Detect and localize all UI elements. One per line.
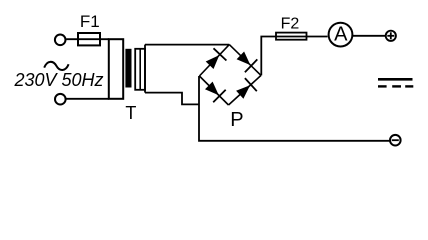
svg-text:F1: F1 [80, 12, 100, 31]
svg-text:230V 50Hz: 230V 50Hz [14, 70, 104, 90]
svg-text:P: P [230, 109, 243, 131]
svg-text:F2: F2 [281, 16, 300, 33]
svg-text:A: A [334, 23, 348, 45]
svg-text:T: T [125, 103, 136, 123]
